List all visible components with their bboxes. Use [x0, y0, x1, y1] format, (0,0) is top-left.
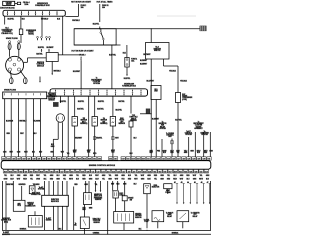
- wire mid col 2: [112, 181, 114, 191]
- svg-text:B26: B26: [195, 171, 198, 173]
- ECM pin bottom 22: [111, 169, 115, 173]
- ECT sensor: [72, 117, 77, 127]
- wires to MAP: [85, 181, 87, 193]
- underdash fuse 5: [89, 90, 91, 92]
- ECM pin top 36: [187, 157, 191, 160]
- wire key switch right output down: [163, 59, 165, 66]
- wire fuse2 to junction block: [65, 16, 78, 18]
- ECM pin bottom 32: [163, 169, 167, 173]
- svg-text:B26: B26: [40, 171, 43, 173]
- svg-text:YEL: YEL: [102, 179, 105, 181]
- svg-text:SENSOR: SENSOR: [101, 120, 108, 122]
- ECM pin top 25: [131, 157, 135, 160]
- wire mid stub 2: [100, 181, 102, 191]
- svg-text:IGNITION: IGNITION: [37, 62, 45, 64]
- svg-text:BLU: BLU: [89, 175, 92, 177]
- fuse element 1 in junction block: [7, 11, 9, 13]
- svg-text:D19: D19: [66, 171, 69, 173]
- ECM pin bottom 17: [86, 169, 90, 173]
- ECM pin bottom 3: [14, 169, 18, 173]
- svg-text:GRN: GRN: [160, 179, 163, 181]
- ECM pin bottom 6: [29, 169, 33, 173]
- svg-text:YEL: YEL: [95, 184, 98, 186]
- ECM pin bottom 38: [194, 169, 198, 173]
- svg-text:YEL: YEL: [154, 179, 157, 181]
- ECM pin bottom 1: [3, 169, 7, 173]
- knock sensor: [122, 196, 127, 201]
- svg-text:To: To: [96, 78, 98, 80]
- wire injector resistor pin 5: [62, 181, 64, 195]
- injector resistor box: [42, 195, 69, 206]
- svg-text:(ECT: (ECT: [82, 121, 86, 123]
- svg-text:BLK/YEL: BLK/YEL: [118, 101, 124, 103]
- svg-text:ORN/BLK: ORN/BLK: [93, 232, 100, 234]
- ECM pin bottom 5: [24, 169, 28, 173]
- junction connector blob: [146, 109, 150, 114]
- underdash fuse/relay box bar: [50, 89, 148, 96]
- svg-text:B23: B23: [184, 171, 187, 173]
- svg-text:No.1: No.1: [5, 28, 8, 30]
- svg-text:HOT IN RUN OR START: HOT IN RUN OR START: [71, 1, 92, 4]
- svg-text:SYSTEM: SYSTEM: [93, 83, 100, 85]
- ECM pin top 19: [92, 157, 96, 160]
- plug wire 3: [10, 71, 13, 78]
- ECM pin bottom 8: [39, 169, 43, 173]
- igniter unit terminals: [4, 93, 6, 95]
- svg-text:ORN: ORN: [17, 151, 20, 153]
- plug wire 2: [18, 50, 20, 57]
- svg-text:YEL: YEL: [44, 175, 47, 177]
- svg-text:BLU: BLU: [128, 175, 131, 177]
- wire fuse2 down: [77, 4, 79, 17]
- wire injector resistor out 2: [53, 206, 55, 230]
- svg-text:INSTRUMENT: INSTRUMENT: [91, 79, 101, 81]
- svg-text:BLK/YEL: BLK/YEL: [8, 19, 15, 21]
- svg-text:GRN/: GRN/: [163, 151, 167, 153]
- svg-text:BLU: BLU: [76, 179, 79, 181]
- svg-text:WHT: WHT: [115, 138, 118, 140]
- ECM pin top 30: [156, 157, 160, 160]
- ECM pin bottom 23: [117, 169, 121, 173]
- oxygen sensor unit box: [114, 212, 134, 224]
- wire junction block to ICM: [62, 16, 64, 23]
- connector C101: [53, 102, 58, 106]
- svg-text:PUMP: PUMP: [144, 221, 148, 223]
- injector INJ1: [144, 184, 151, 194]
- svg-text:BLK/YEL: BLK/YEL: [98, 101, 104, 103]
- svg-text:GRN: GRN: [56, 179, 59, 181]
- wire igniter pin 2 to ECM: [10, 99, 12, 157]
- underdash fuse 9: [123, 90, 125, 92]
- svg-text:GRN/RED: GRN/RED: [19, 184, 27, 186]
- distributor body: [6, 56, 24, 74]
- wire TPS col to ECM: [130, 127, 132, 157]
- svg-text:BLK/YEL: BLK/YEL: [124, 78, 131, 80]
- svg-text:D21: D21: [71, 171, 74, 173]
- svg-text:B11: B11: [153, 171, 156, 173]
- full height wire left: [73, 187, 75, 231]
- underdash fuse 8: [115, 90, 117, 92]
- ECM pin bottom 2: [8, 169, 12, 173]
- svg-text:YEL: YEL: [167, 175, 170, 177]
- svg-text:B15: B15: [164, 171, 167, 173]
- svg-text:CONDENSER: CONDENSER: [182, 97, 193, 99]
- svg-text:BLU: BLU: [130, 153, 133, 155]
- wire ECT to ECM: [74, 126, 76, 157]
- noise condenser C2: [176, 93, 181, 103]
- ECM pin top 35: [182, 157, 186, 160]
- svg-text:YEL: YEL: [135, 175, 138, 177]
- wire BLK/YEL bus to connector C123: [74, 28, 202, 30]
- svg-text:WHT/BLU: WHT/BLU: [41, 19, 49, 21]
- svg-text:B25: B25: [189, 171, 192, 173]
- ECM pin top 40: [207, 157, 211, 160]
- wire ELD to ECM: [155, 100, 157, 157]
- wire injector resistor pin 3: [53, 181, 55, 195]
- svg-text:WHT: WHT: [95, 175, 98, 177]
- splice on BLK/WHT: [151, 113, 152, 114]
- wire mid stub 1: [95, 181, 97, 191]
- svg-text:BLK/YEL: BLK/YEL: [175, 119, 182, 121]
- svg-text:SENSOR: SENSOR: [95, 199, 102, 201]
- svg-text:D15: D15: [55, 171, 58, 173]
- svg-text:INSTRUMENT: INSTRUMENT: [193, 123, 203, 125]
- svg-text:LOCK SYS: LOCK SYS: [2, 234, 10, 236]
- icm unit box: [46, 53, 58, 62]
- radio noise condenser: [19, 29, 23, 35]
- svg-text:GRN: GRN: [209, 151, 212, 153]
- svg-text:UNIT: UNIT: [154, 90, 158, 92]
- svg-text:BLU: BLU: [32, 151, 35, 153]
- svg-text:SENSOR): SENSOR): [100, 123, 108, 125]
- wire igniter pin 6 to ECM: [40, 99, 42, 157]
- svg-text:B15: B15: [9, 171, 12, 173]
- ECM pin top 2: [7, 157, 11, 160]
- ECM pin bottom 25: [127, 169, 131, 173]
- svg-text:YEL: YEL: [63, 179, 66, 181]
- svg-text:To: To: [198, 121, 200, 123]
- underdash fuse 1: [55, 90, 57, 92]
- wire fuse bar to ECM B: [67, 96, 69, 157]
- svg-text:YEL: YEL: [67, 153, 70, 155]
- wire stub to left: [140, 113, 151, 115]
- svg-text:BLU: BLU: [187, 179, 190, 181]
- svg-text:SYSTEM: SYSTEM: [38, 189, 45, 191]
- svg-text:ORN: ORN: [50, 151, 53, 153]
- service check connector box: [13, 200, 25, 211]
- svg-text:BRN/BLK: BRN/BLK: [172, 232, 178, 234]
- svg-text:WHT: WHT: [9, 151, 12, 153]
- svg-text:B19: B19: [19, 171, 22, 173]
- ECT gauge box: [28, 216, 42, 228]
- svg-text:BLK/WHT: BLK/WHT: [152, 119, 159, 121]
- ECM pin top 17: [82, 157, 86, 160]
- svg-text:GRN: GRN: [180, 175, 183, 177]
- svg-text:B19: B19: [174, 171, 177, 173]
- svg-text:WHT: WHT: [73, 152, 76, 154]
- ECM pin bottom 24: [122, 169, 126, 173]
- ECM pin top 16: [77, 157, 81, 160]
- ignition coil terminal 4: [49, 36, 51, 38]
- svg-text:YEL/GRN: YEL/GRN: [33, 120, 41, 122]
- svg-text:SYSTEM: SYSTEM: [159, 128, 166, 130]
- wire igniter pin 1 to ECM: [4, 99, 6, 157]
- svg-text:BLK/YEL: BLK/YEL: [36, 53, 42, 55]
- ECM pin top 23: [121, 157, 125, 160]
- wire injector resistor pin 2: [48, 181, 50, 195]
- svg-text:WHT: WHT: [36, 175, 39, 177]
- wire condenser down: [177, 103, 179, 157]
- svg-text:BLU: BLU: [134, 138, 137, 140]
- svg-text:GRN: GRN: [50, 175, 53, 177]
- svg-text:ENGINE CONTROL MODULE: ENGINE CONTROL MODULE: [89, 165, 116, 167]
- distributor cap towers: [8, 58, 11, 61]
- svg-text:DISTRIBUTOR: DISTRIBUTOR: [2, 29, 14, 31]
- wire relay2 down: [182, 222, 184, 229]
- svg-text:WHT/: WHT/: [204, 151, 208, 153]
- wire igniter pin 5 to ECM: [32, 99, 34, 157]
- fuse element 4 in junction block: [28, 11, 30, 13]
- svg-text:GRN: GRN: [89, 179, 92, 181]
- wire ECM to DLC: [5, 181, 7, 210]
- svg-text:CONTROL: CONTROL: [166, 135, 174, 137]
- svg-text:YEL/: YEL/: [121, 179, 125, 181]
- ignition coil terminal 1: [37, 36, 39, 38]
- ECM pin top 11: [52, 157, 56, 160]
- svg-text:CONNECTOR: CONNECTOR: [31, 194, 42, 196]
- underdash fuse 3: [73, 90, 75, 92]
- ECM pin bottom 4: [19, 169, 23, 173]
- svg-text:D25: D25: [81, 171, 84, 173]
- svg-text:PNK: PNK: [157, 151, 160, 153]
- wire mid col 1: [107, 181, 109, 234]
- ECM pin top 28: [146, 157, 150, 160]
- svg-text:D23: D23: [76, 171, 79, 173]
- ECM pin bottom 10: [50, 169, 54, 173]
- svg-text:YEL/BLK: YEL/BLK: [180, 81, 188, 83]
- A/C diode D1: [29, 186, 35, 194]
- svg-text:WHT: WHT: [115, 179, 118, 181]
- wire tps to bus: [84, 229, 86, 235]
- svg-text:To ECT: To ECT: [46, 218, 51, 220]
- wire mid col 3: [117, 181, 119, 190]
- wire igniter pin 3 to ECM: [18, 99, 20, 157]
- svg-text:BLK/: BLK/: [176, 151, 180, 153]
- scan artifact line: [157, 15, 196, 17]
- ECM pin top 33: [172, 157, 176, 160]
- wire purge down: [167, 189, 169, 194]
- svg-text:SENSOR: SENSOR: [135, 217, 142, 219]
- ECM pin bottom 31: [158, 169, 162, 173]
- wire distributor to icm: [24, 61, 28, 63]
- svg-text:C11: C11: [92, 171, 95, 173]
- wire from junction bar to coil: [62, 23, 64, 55]
- wire C123 down to key switch: [150, 29, 152, 43]
- ECM pin top 39: [202, 157, 206, 160]
- svg-text:NOISE): NOISE): [28, 33, 34, 35]
- svg-text:C13: C13: [97, 171, 100, 173]
- svg-text:WHT/BLU: WHT/BLU: [54, 71, 62, 73]
- svg-text:SYSTEM: SYSTEM: [185, 134, 192, 136]
- IAT sensor: [92, 117, 97, 127]
- svg-text:WHT: WHT: [17, 179, 20, 181]
- svg-text:WHT: WHT: [24, 151, 27, 153]
- wire icm down arrow: [51, 62, 53, 74]
- svg-text:To CRUISE: To CRUISE: [166, 133, 174, 135]
- wire branch to fuse F4: [126, 45, 128, 58]
- svg-text:GRN: GRN: [89, 207, 92, 209]
- svg-text:MIL: MIL: [74, 224, 77, 226]
- ECM pin bottom 12: [60, 169, 64, 173]
- svg-text:BLK/YEL: BLK/YEL: [93, 23, 100, 25]
- wire fuse4 down arrow: [126, 67, 128, 75]
- ignition coil terminal 3: [46, 36, 48, 38]
- wire injector resistor pin 4: [57, 181, 59, 195]
- svg-text:D11: D11: [45, 171, 48, 173]
- svg-text:No.2: No.2: [156, 47, 159, 49]
- svg-text:GRN: GRN: [23, 175, 26, 177]
- svg-text:GRN: GRN: [108, 179, 111, 181]
- wire DLC to bus: [5, 210, 7, 230]
- svg-text:RESISTOR: RESISTOR: [51, 201, 60, 203]
- svg-text:WHT: WHT: [149, 152, 152, 154]
- svg-text:BLU: BLU: [39, 151, 42, 153]
- svg-text:WHT: WHT: [141, 175, 144, 177]
- ECM pin top 4: [17, 157, 21, 160]
- ECM pin top 6: [27, 157, 31, 160]
- svg-text:BLU/WHT: BLU/WHT: [73, 71, 80, 73]
- svg-text:CLUSTER: CLUSTER: [195, 125, 203, 127]
- starter relay box: [177, 211, 189, 222]
- svg-text:RED/: RED/: [23, 179, 27, 181]
- svg-text:SPARK PLUGS: SPARK PLUGS: [4, 89, 17, 92]
- svg-text:B17: B17: [169, 171, 172, 173]
- wire relay1 down: [157, 222, 159, 229]
- svg-text:SWITCH: SWITCH: [154, 50, 161, 52]
- fuse element 7 in junction block: [49, 11, 51, 13]
- ECM pin top 1: [2, 157, 6, 160]
- svg-text:GRN: GRN: [193, 179, 196, 181]
- ignition switch box: [74, 29, 116, 45]
- wire fuse bar to IAT: [94, 96, 96, 116]
- wire fuse31 down: [99, 4, 101, 22]
- svg-text:BLK/YEL: BLK/YEL: [77, 109, 84, 111]
- ground bus 1: [2, 229, 211, 231]
- wire igniter pin 4 to ECM: [25, 99, 27, 157]
- svg-text:GRN: GRN: [206, 175, 209, 177]
- wire map to tps: [84, 205, 86, 218]
- svg-text:BLU: BLU: [11, 175, 14, 177]
- ECM pin bottom 14: [70, 169, 74, 173]
- wire ECM right edge to bus: [210, 181, 212, 230]
- svg-text:(COIL): (COIL): [182, 99, 187, 101]
- wire key switch left output down: [150, 59, 152, 157]
- plug wire 1: [9, 50, 11, 57]
- ignition switch contact SW1: [100, 32, 102, 34]
- wire sensor right pin down: [61, 122, 63, 156]
- svg-text:BLU: BLU: [197, 152, 200, 154]
- underdash fuse 10: [132, 90, 134, 92]
- ECM pin top 8: [37, 157, 41, 160]
- wire o2 box to bus: [123, 223, 125, 230]
- svg-text:B13: B13: [4, 171, 7, 173]
- svg-text:RED/: RED/: [197, 151, 201, 153]
- wire icm to fuse2 column: [58, 54, 81, 56]
- ECM pin top 34: [177, 157, 181, 160]
- svg-text:D11: D11: [200, 171, 203, 173]
- svg-text:MODULE: MODULE: [37, 65, 44, 67]
- purge valve: [164, 184, 172, 189]
- svg-text:SENSOR: SENSOR: [93, 222, 100, 224]
- svg-text:WHT: WHT: [61, 151, 64, 153]
- svg-text:IGNITION: IGNITION: [154, 48, 162, 50]
- svg-text:BLK/YEL: BLK/YEL: [38, 47, 44, 49]
- ECM pin top 13: [62, 157, 66, 160]
- svg-text:GRN: GRN: [121, 175, 124, 177]
- svg-text:WHT/: WHT/: [199, 179, 203, 181]
- svg-text:ORN: ORN: [3, 151, 6, 153]
- svg-text:BLK/: BLK/: [150, 151, 154, 153]
- svg-text:BLU/: BLU/: [10, 179, 14, 181]
- svg-text:BLK/: BLK/: [147, 179, 151, 181]
- ECM pin top 24: [126, 157, 130, 160]
- svg-text:GRN/: GRN/: [87, 150, 91, 152]
- svg-text:GRN: GRN: [69, 175, 72, 177]
- spark plug 1: [9, 41, 11, 43]
- wire a/t to ECM: [188, 137, 190, 157]
- underdash fuse 6: [98, 90, 100, 92]
- fuse F4: [125, 58, 129, 68]
- ECM pin bottom 33: [168, 169, 172, 173]
- ECM pin bottom 13: [65, 169, 69, 173]
- TPS box: [80, 217, 89, 229]
- ECM pin bottom 27: [137, 169, 141, 173]
- igniter unit box: [3, 92, 47, 99]
- svg-text:GRN: GRN: [141, 179, 144, 181]
- fuse element 6 in junction block: [42, 11, 44, 13]
- svg-text:B13: B13: [158, 171, 161, 173]
- underdash fuse 7: [106, 90, 108, 92]
- ECM pin bottom 29: [147, 169, 151, 173]
- o2 sensor wires: [115, 198, 117, 212]
- ECM pin bottom 26: [132, 169, 136, 173]
- svg-text:ORN: ORN: [17, 175, 20, 177]
- svg-text:GRN: GRN: [102, 175, 105, 177]
- svg-text:B21: B21: [25, 171, 28, 173]
- ECM pin top 29: [151, 157, 155, 160]
- wire MAP to ECM: [112, 126, 114, 157]
- svg-text:D13: D13: [205, 171, 208, 173]
- svg-text:BLU/: BLU/: [95, 179, 99, 181]
- splice S1: [99, 28, 100, 29]
- wire junction block to distributor column: [4, 16, 6, 24]
- svg-text:BLK/YEL: BLK/YEL: [115, 110, 122, 112]
- ECM pin top 32: [167, 157, 171, 160]
- ECM body: [1, 161, 211, 170]
- underdash fuse 2: [64, 90, 66, 92]
- svg-text:D26: D26: [86, 171, 89, 173]
- svg-text:BLK: BLK: [87, 152, 90, 154]
- MAP sensor: [110, 117, 115, 127]
- svg-text:UNIT: UNIT: [168, 136, 172, 138]
- wire to ECT gauge: [34, 211, 36, 215]
- ECM pin top 27: [141, 157, 145, 160]
- crank sensor P1: [56, 114, 64, 122]
- spark plug 2: [18, 41, 20, 43]
- svg-text:SENSOR: SENSOR: [81, 120, 88, 122]
- ECM pin bottom 21: [106, 169, 110, 173]
- ECM pin top 14: [67, 157, 71, 160]
